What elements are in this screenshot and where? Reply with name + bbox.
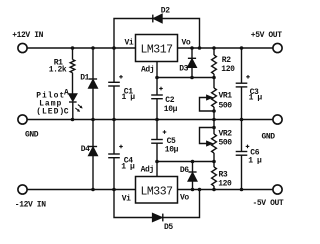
svg-text:VR1: VR1: [219, 91, 233, 100]
svg-text:1 μ: 1 μ: [121, 163, 135, 172]
svg-text:R3: R3: [219, 170, 228, 179]
node gnd/VR1-VR2: [212, 118, 216, 122]
node rail-/D4: [91, 188, 95, 192]
capacitor C5: [156, 120, 158, 140]
C2 plus sign: [159, 88, 163, 90]
node gnd/C3-C6: [240, 118, 244, 122]
resistor R3: [213, 162, 215, 168]
C1 plus sign: [119, 76, 123, 78]
resistor R2: [213, 48, 215, 55]
node rail/R1: [71, 46, 75, 50]
svg-text:Vo: Vo: [180, 194, 189, 203]
svg-text:Vi: Vi: [124, 38, 133, 47]
node Vo+/R2: [212, 46, 216, 50]
svg-text:(LED): (LED): [36, 107, 65, 116]
diode D4: [92, 120, 94, 147]
VR2 wiper loop: [200, 128, 215, 144]
wire Vo+ rail: [178, 47, 273, 49]
svg-text:C2: C2: [165, 96, 174, 105]
C4 plus sign: [119, 146, 123, 148]
svg-text:VR2: VR2: [219, 130, 233, 139]
wire adj+ rail: [157, 77, 214, 79]
svg-text:120: 120: [218, 179, 232, 188]
node Vo+/C3: [240, 46, 244, 50]
diode D1: [92, 48, 94, 79]
LED arrow 2: [75, 108, 78, 111]
node adj-/VR2-R3: [212, 160, 216, 164]
terminal GND right: [273, 115, 282, 124]
wire LM337 adj pin: [156, 162, 158, 177]
node adj+/R2-VR1: [212, 76, 216, 80]
svg-text:10μ: 10μ: [164, 105, 178, 114]
VR1 wiper loop: [200, 98, 215, 112]
wire GND rail: [27, 119, 273, 121]
wire LM317 adj pin: [156, 62, 158, 78]
C6 plus sign: [246, 145, 250, 147]
svg-text:10μ: 10μ: [165, 145, 179, 154]
svg-text:LM317: LM317: [140, 43, 172, 56]
svg-text:GND: GND: [262, 132, 276, 141]
svg-text:A: A: [64, 88, 69, 97]
node Vo-/R3: [212, 188, 216, 192]
svg-text:Adj: Adj: [141, 66, 154, 75]
node adj+/D3: [190, 76, 194, 80]
diode D6: [192, 162, 194, 173]
node gnd/LED: [71, 118, 75, 122]
svg-text:120: 120: [221, 65, 235, 74]
node Vo+/D3: [190, 46, 194, 50]
svg-text:1 μ: 1 μ: [249, 94, 263, 103]
svg-text:D2: D2: [161, 7, 170, 16]
node VR2 wiper-top: [212, 126, 216, 130]
wire Vo- rail: [178, 189, 273, 191]
node rail/C1-D2: [112, 46, 116, 50]
diode D3: [191, 48, 193, 58]
svg-text:C: C: [64, 108, 69, 117]
LED arrow 1: [78, 105, 81, 108]
potentiometer VR2: [213, 120, 215, 135]
C5 plus sign: [163, 131, 167, 133]
terminal GND left: [18, 115, 27, 124]
node gnd/C1-C4: [112, 118, 116, 122]
svg-text:D3: D3: [179, 65, 188, 74]
capacitor C2: [156, 78, 158, 96]
op-amp U2 LM337 regulator box: [136, 177, 178, 204]
node rail-/C4-D5: [112, 188, 116, 192]
svg-text:Adj: Adj: [141, 166, 154, 175]
node adj+/C2: [155, 76, 159, 80]
svg-text:+12V IN: +12V IN: [12, 31, 43, 40]
terminal +12V IN: [18, 43, 27, 52]
capacitor C6: [241, 120, 243, 152]
wire D5 bypass branch: [114, 190, 200, 218]
LED pilot lamp: [69, 94, 77, 101]
svg-text:500: 500: [219, 102, 233, 111]
wire adj- rail: [157, 161, 214, 163]
node Vo-/D6: [191, 188, 195, 192]
C3 plus sign: [246, 76, 250, 78]
diode D5: [153, 214, 162, 222]
svg-text:-12V IN: -12V IN: [15, 201, 46, 210]
svg-text:500: 500: [219, 138, 233, 147]
node Vo+/D2: [198, 46, 202, 50]
node gnd/C2-C5: [155, 118, 159, 122]
svg-text:GND: GND: [25, 130, 39, 139]
wire bottom rail -12V in: [27, 189, 135, 191]
diode D2: [152, 15, 154, 23]
resistor R1: [72, 48, 74, 60]
wire top rail +12V in: [27, 47, 135, 49]
node gnd/D1-D4: [91, 118, 95, 122]
svg-text:R2: R2: [222, 56, 231, 65]
svg-text:LM337: LM337: [140, 185, 172, 198]
svg-text:D5: D5: [164, 223, 173, 232]
node rail/D1: [91, 46, 95, 50]
terminal -12V IN: [18, 185, 27, 194]
node VR1 wiper-bottom: [212, 109, 216, 113]
node adj-/C5: [155, 160, 159, 164]
capacitor C4: [113, 120, 115, 155]
svg-text:-5V OUT: -5V OUT: [253, 199, 284, 208]
svg-text:+5V OUT: +5V OUT: [251, 31, 282, 40]
svg-text:Vo: Vo: [182, 38, 191, 47]
capacitor C3: [241, 48, 243, 83]
svg-text:D4: D4: [81, 145, 90, 154]
terminal +5V OUT: [273, 43, 282, 52]
svg-text:Vi: Vi: [122, 195, 131, 204]
wire D2 bypass branch: [114, 19, 200, 49]
node adj-/D6: [191, 160, 195, 164]
capacitor C1: [113, 48, 115, 82]
svg-text:1 μ: 1 μ: [122, 93, 136, 102]
svg-text:D6: D6: [180, 166, 189, 175]
svg-text:1.2k: 1.2k: [49, 66, 67, 75]
node Vo-/D5: [198, 188, 202, 192]
op-amp U1 LM317 regulator box: [136, 35, 178, 62]
terminal -5V OUT: [273, 185, 282, 194]
potentiometer VR1: [213, 78, 215, 89]
node Vo-/C6: [240, 188, 244, 192]
svg-text:D1: D1: [80, 74, 89, 83]
svg-text:1 μ: 1 μ: [248, 156, 262, 165]
